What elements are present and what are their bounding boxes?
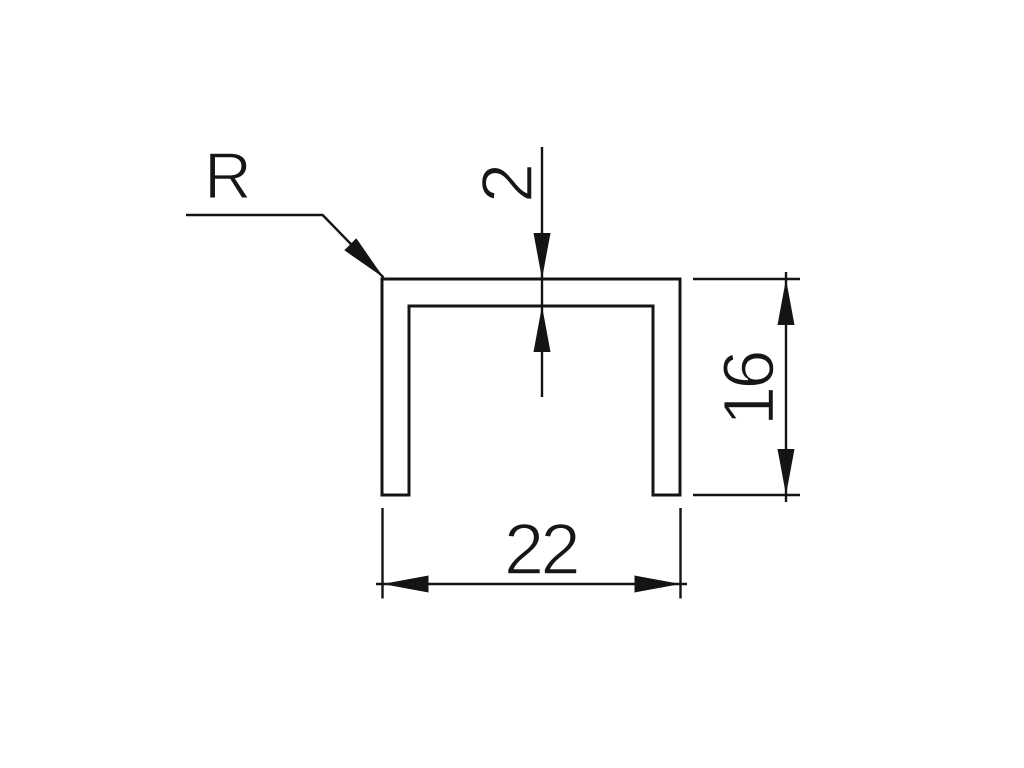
- extension line 16 bottom: [693, 494, 800, 496]
- extension line 22 right: [679, 508, 681, 599]
- extension line 22 left: [381, 508, 383, 599]
- arrowhead 22 right: [635, 576, 681, 593]
- arrowhead 2 down: [534, 233, 551, 279]
- extension line 16 top: [693, 278, 800, 280]
- dimension line 2 (vertical): [541, 147, 543, 397]
- U-channel profile outline: [382, 279, 680, 495]
- svg-text:2: 2: [468, 163, 548, 203]
- arrowhead 2 up: [534, 306, 551, 352]
- arrowhead 16 down: [778, 449, 795, 495]
- dimension line 22: [376, 583, 687, 585]
- arrowhead 16 up: [778, 279, 795, 325]
- svg-text:16: 16: [710, 353, 790, 427]
- arrowhead leader R: [344, 238, 383, 277]
- leader line for R: [186, 215, 384, 278]
- arrowhead 22 left: [383, 576, 429, 593]
- svg-text:22: 22: [504, 510, 578, 590]
- svg-text:R: R: [204, 139, 252, 213]
- dimension line 16: [785, 272, 787, 502]
